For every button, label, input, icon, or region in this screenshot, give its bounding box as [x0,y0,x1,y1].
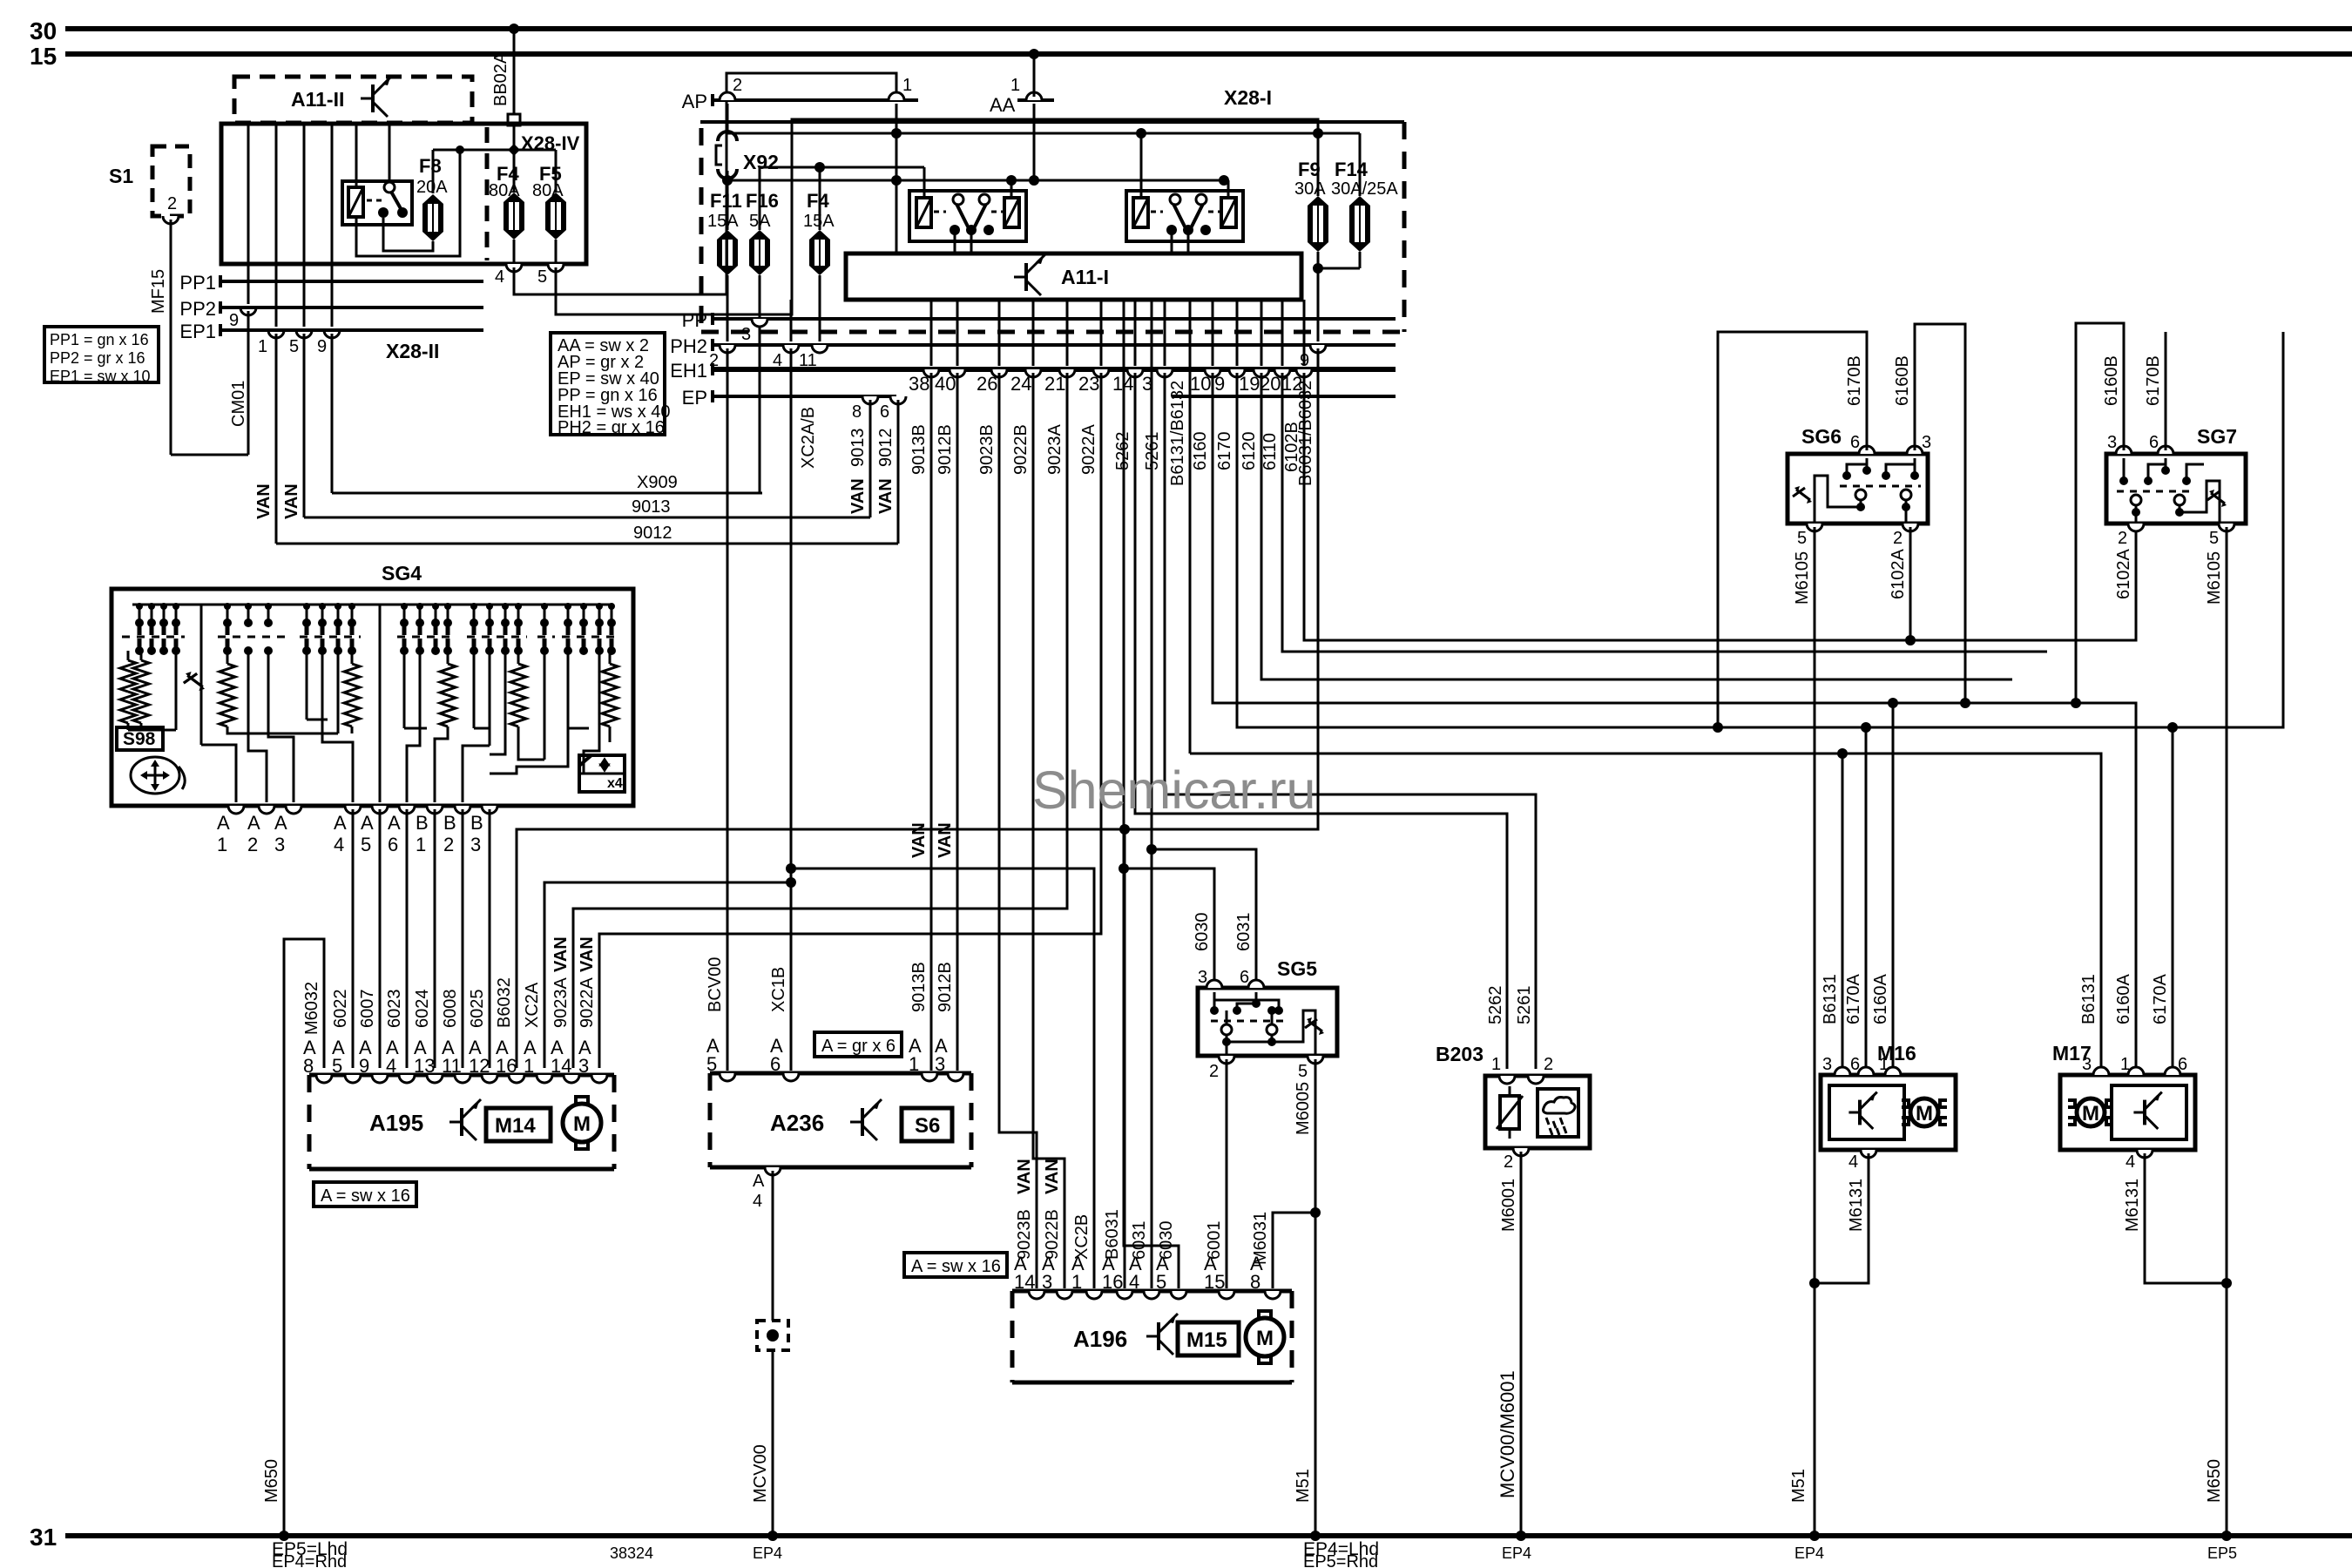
connector A196 pin A14 [1029,1291,1044,1299]
connector M16 pin 1 [1885,1067,1901,1075]
wire VAN 9013 link [869,400,872,517]
svg-text:9: 9 [359,1055,369,1077]
svg-text:2: 2 [167,194,177,213]
connector SG5 pin 2 [1219,1056,1234,1064]
svg-text:5: 5 [537,267,547,287]
connector SG4 pin B1 [427,806,443,814]
wiper motor unit A196 box [1012,1289,1292,1294]
connector EH1 pin 3 [1164,300,1166,366]
connector PH2 pin 11 [812,345,828,353]
svg-text:3: 3 [1042,1271,1052,1293]
SG4 switch group 3 [302,618,311,627]
svg-text:6022: 6022 [331,990,350,1029]
bus EP1 [219,324,222,336]
svg-text:X28-IV: X28-IV [521,132,580,154]
wire 9022B [1033,373,1064,1288]
svg-text:23: 23 [1078,373,1099,395]
wire MCV00 to ground bus [772,1171,774,1536]
svg-text:A: A [361,812,374,834]
svg-text:1: 1 [1010,76,1020,95]
wires SG4 to A195 [352,809,355,1068]
svg-text:11: 11 [442,1055,462,1077]
svg-text:F8: F8 [419,155,442,177]
connector A196 pin A3 [1057,1291,1072,1299]
svg-text:9: 9 [229,311,239,330]
svg-text:M14: M14 [495,1114,536,1138]
rear wiper switch SG6 box [1788,454,1928,524]
connector EH1 pin 21 [1066,300,1069,366]
M17 motor [2068,1100,2075,1125]
svg-text:PH2: PH2 [670,335,707,357]
connector PH2 pin 2 [720,345,735,353]
svg-text:B6032: B6032 [495,977,514,1028]
svg-text:38: 38 [909,373,929,395]
SG7 internals [2123,458,2126,481]
connector A195 pin A9 [372,1075,388,1083]
fuse F8 [422,194,443,204]
svg-text:1: 1 [902,76,912,95]
wire 6030 net [1123,300,1125,868]
wire B6131 to M16 [1842,754,1844,1069]
wire B6031/B6032 from F9 [517,348,1318,1068]
svg-text:2: 2 [709,351,719,370]
svg-text:30A: 30A [1294,179,1326,199]
transistor icon A195 [449,1121,462,1124]
svg-text:26: 26 [977,373,997,395]
svg-text:4: 4 [1848,1152,1858,1172]
SG4 switch group 7 [564,618,572,627]
svg-text:B6031/B6032: B6031/B6032 [1296,381,1315,486]
svg-text:BCV00: BCV00 [706,957,725,1012]
svg-text:2: 2 [733,76,742,95]
wire relay K2 outputs [954,233,956,253]
SG4 arrow icon [186,672,192,678]
svg-text:XC2A: XC2A [523,982,542,1028]
svg-text:3: 3 [2082,1055,2092,1074]
svg-text:9023A: 9023A [551,977,571,1028]
svg-text:3: 3 [1922,433,1931,452]
ECU A11-II dashed box [234,77,472,123]
svg-text:6: 6 [388,834,398,855]
connector A195 pin A1 [537,1075,552,1083]
inline connector X92 [718,132,737,141]
svg-text:B: B [443,812,456,834]
svg-text:1: 1 [1879,1055,1889,1074]
fuse F11 [717,230,738,240]
connector SG4 pin B2 [455,806,470,814]
svg-text:6110: 6110 [1260,433,1280,470]
connector A196 pin A1 [1086,1291,1102,1299]
wire XC2A branch [544,882,791,1068]
B203 thermistor icon [1500,1096,1519,1129]
window lift icon x4 [579,755,625,792]
svg-text:A = gr x 6: A = gr x 6 [821,1037,896,1056]
svg-text:MCV00/M6001: MCV00/M6001 [1497,1370,1518,1498]
connector SG4 pin A5 [372,806,388,814]
steering column switch SG4 box [112,589,633,806]
svg-text:3: 3 [1822,1055,1832,1074]
SG4 switch group 4 [400,618,409,627]
svg-text:16: 16 [1102,1271,1123,1293]
svg-text:F4: F4 [807,190,829,212]
wiper motor M16 box [1821,1075,1956,1150]
svg-text:B203: B203 [1436,1043,1484,1065]
svg-text:4: 4 [386,1055,396,1077]
wire 5261 to B203 [1165,373,1536,1069]
transistor icon A11-II [361,98,373,100]
wire M6105 left / M51 right [1814,527,1816,1536]
wire M6005 / M51 [1315,1059,1317,1536]
svg-text:4: 4 [1129,1271,1139,1293]
svg-text:9012: 9012 [633,524,672,543]
wire M6031 to A196 [1273,1213,1315,1288]
B203 rain icon [1538,1089,1578,1137]
svg-text:15A: 15A [707,212,739,231]
wire XC2B branch [791,868,1094,1288]
svg-text:EP: EP [682,387,707,409]
svg-text:6170A: 6170A [1844,974,1863,1024]
bus EP [711,390,714,402]
svg-text:2: 2 [1893,529,1903,548]
wire AP1 down [896,104,898,253]
svg-text:5: 5 [361,834,371,855]
wire 9012B [956,373,959,1071]
svg-text:M6131: M6131 [2123,1179,2142,1232]
wire relay K1 coil bottom loop [356,150,460,256]
svg-text:2: 2 [1209,1062,1219,1081]
svg-text:MCV00: MCV00 [751,1444,770,1503]
svg-text:EH1: EH1 [670,360,707,382]
svg-text:4: 4 [495,267,504,287]
wire 6170B SG7 loop [2165,332,2167,450]
svg-text:M6105: M6105 [1793,551,1812,605]
connector SG7 pin 5 [2219,524,2234,531]
legend A = sw x 16 (A195) [314,1182,416,1206]
svg-text:8: 8 [1250,1271,1260,1293]
svg-text:M6105: M6105 [2205,551,2224,605]
connector A195 pin A3 [591,1075,607,1083]
svg-text:XC1B: XC1B [769,967,788,1012]
wire 6170 trunk [1237,332,2283,727]
connector SG6 pin 2 [1903,524,1918,531]
SG6 internals [1866,458,1869,470]
SG4 resistor group 4 [447,651,449,664]
svg-text:PP: PP [682,309,707,331]
svg-text:8: 8 [852,402,862,422]
connector SG6 pin 6 [1859,446,1875,454]
transistor icon A196 [1146,1335,1159,1338]
svg-text:F16: F16 [746,190,779,212]
connector X28-IV pin 4 [513,240,516,264]
connector A196 pin A15 [1219,1291,1234,1299]
wire X909 horizontal [332,492,762,495]
label S6 box [902,1108,952,1141]
wire 9012 horizontal [276,543,898,545]
fuse F5 [545,193,566,202]
wire 9023A [573,373,1067,1068]
connector EP pin 8 [862,396,878,404]
connector EH1 pin 40 [956,300,959,366]
svg-text:SG6: SG6 [1801,425,1842,448]
svg-text:EP5: EP5 [2207,1544,2237,1562]
SG4 resistor group 3 [351,651,354,664]
connector SG4 pin A4 [345,806,361,814]
svg-text:5: 5 [706,1053,717,1075]
svg-text:6170B: 6170B [2144,355,2163,406]
legend A = gr x 6 [814,1032,902,1057]
svg-text:PP1 = gn x 16: PP1 = gn x 16 [50,331,149,348]
svg-text:2: 2 [1544,1055,1553,1074]
svg-text:EP5=Rhd: EP5=Rhd [1303,1552,1378,1568]
connector EH1 pin 14 [1134,300,1137,366]
connector SG4 pin A2 [259,806,274,814]
svg-text:6025: 6025 [468,990,487,1029]
wire H1 feed to F9/F14 [727,132,1360,135]
SG4 center divider wire [379,605,382,802]
svg-text:14: 14 [551,1055,571,1077]
connector box X28-I dashed [700,120,1404,124]
svg-text:4: 4 [773,351,782,370]
wire 6160B SG6 loop [1915,324,1965,703]
relay K3 in X28-I [1126,191,1243,241]
connector M17 pin 3 [2093,1067,2109,1075]
svg-text:A196: A196 [1073,1326,1127,1352]
connector A195 pin A13 [427,1075,443,1083]
svg-text:9: 9 [1214,373,1225,395]
svg-text:10: 10 [1190,373,1211,395]
svg-text:3: 3 [578,1055,589,1077]
fuse F4 (15A) [809,230,830,240]
svg-text:9012: 9012 [876,429,896,468]
connector PH2 pin 4 [783,345,799,353]
svg-text:6160B: 6160B [1893,355,1912,406]
svg-text:9023A: 9023A [1045,424,1064,475]
svg-text:VAN: VAN [848,478,868,514]
svg-text:X909: X909 [637,473,678,492]
wire 6160B SG7 loop [2076,323,2124,703]
svg-text:VAN: VAN [876,478,896,514]
wire F9/F14 tops [1313,128,1323,139]
svg-text:A: A [274,812,287,834]
connector X28-IV pin 5 [555,240,558,264]
connector AP pin 1 [889,92,904,100]
svg-text:5: 5 [1298,1062,1308,1081]
connector X28-II pin 1 on EP1 [268,330,284,338]
wire M6131 M16 [1815,1153,1869,1283]
wire BB02A from bus 30 to X28-IV [509,24,519,34]
svg-text:19: 19 [1239,373,1260,395]
svg-text:AP: AP [682,91,707,112]
connector X28-II pin 9 on EP1 [324,330,340,338]
svg-text:A = sw x 16: A = sw x 16 [911,1257,1001,1276]
connector EH1 pin 23 [1100,300,1103,366]
svg-text:M6005: M6005 [1294,1082,1313,1135]
wiper motor M17 box [2060,1075,2195,1150]
connector SG4 pin A6 [399,806,415,814]
connector M16 pin 6 [1858,1067,1874,1075]
svg-text:1: 1 [1491,1055,1501,1074]
svg-text:21: 21 [1044,373,1065,395]
wire F5 output loop to EH feed [556,119,1318,314]
wire 6110 [1282,373,2047,652]
bus PP2 [219,301,222,314]
bus PP1 [219,275,222,287]
svg-text:M51: M51 [1294,1469,1313,1503]
transistor icon A11-I [1014,276,1026,279]
connector AP pin 2 [720,92,735,100]
wire B6031 to A196 [1124,829,1126,1288]
svg-text:3: 3 [741,325,751,344]
wire relay K3 outputs [1171,233,1173,253]
svg-text:B6131: B6131 [1821,974,1840,1024]
SG5 internals [1213,992,1216,1010]
ground splice box on MCV00 [757,1321,788,1350]
svg-text:30A/25A: 30A/25A [1331,179,1398,199]
svg-text:24: 24 [1010,373,1031,395]
svg-text:SG4: SG4 [382,562,422,585]
connector SG6 pin 3 [1907,446,1923,454]
svg-text:6031: 6031 [1234,913,1254,952]
node junction F8/F4 feed [508,144,520,156]
BSI solid box with X28-IV [221,124,586,264]
connector EH1 pin 38 [930,300,933,366]
svg-text:VAN: VAN [909,822,929,858]
wire 6120 [1261,373,2012,679]
wire H2 [760,167,924,230]
svg-text:6120: 6120 [1240,432,1259,471]
svg-text:1: 1 [258,337,267,356]
svg-text:6: 6 [1850,433,1860,452]
svg-text:VAN: VAN [936,822,955,858]
svg-text:6160A: 6160A [2114,974,2133,1024]
bus PP [711,313,714,325]
connector A195 pin A8 [316,1075,332,1083]
svg-text:20: 20 [1260,373,1281,395]
svg-text:6102A: 6102A [1889,549,1908,599]
svg-text:M: M [1916,1102,1933,1125]
connector A195 pin A11 [455,1075,470,1083]
SG4 resistor group 2 [226,651,229,664]
dashed separator X28-IV [485,127,490,260]
svg-text:A: A [217,812,230,834]
svg-text:1: 1 [524,1055,534,1077]
svg-text:Shemicar.ru: Shemicar.ru [1032,760,1315,820]
connector SG5 pin 5 [1308,1056,1323,1064]
svg-text:4: 4 [2126,1152,2135,1172]
svg-text:6024: 6024 [413,990,432,1029]
wire relay K1 contact to F8 bottom [383,218,433,251]
relay K1 in BSI [342,181,412,225]
svg-text:2: 2 [247,834,258,855]
svg-text:6: 6 [2178,1055,2187,1074]
svg-text:M15: M15 [1186,1328,1227,1352]
wire 6170B SG6 loop [1718,332,1867,727]
svg-text:9012B: 9012B [936,424,955,475]
svg-text:EP4: EP4 [1794,1544,1824,1562]
wiper stalk switch SG5 box [1198,988,1337,1056]
svg-text:4: 4 [334,834,344,855]
M16 motor [1902,1100,1909,1125]
wire 6102B trunk [1304,373,2136,640]
wiper motor unit A195 box [309,1073,614,1078]
svg-text:x4: x4 [607,776,623,791]
svg-text:5: 5 [289,337,299,356]
svg-text:30: 30 [30,17,57,44]
svg-text:CM01: CM01 [229,381,248,427]
svg-text:6: 6 [2149,433,2159,452]
svg-text:6170: 6170 [1215,432,1234,471]
wire F9/F14 bottoms join [1317,252,1320,341]
svg-text:VAN: VAN [1043,1159,1062,1194]
svg-text:6023: 6023 [385,990,404,1029]
svg-text:PP1: PP1 [179,272,216,294]
wires A11-II to X28-II buses [247,123,250,304]
svg-text:5: 5 [1156,1271,1166,1293]
svg-text:6160: 6160 [1191,432,1210,471]
svg-text:M: M [2082,1102,2099,1125]
rear wiper switch SG7 box [2106,454,2246,524]
wire H3 relay feed from X92 [727,179,1224,182]
connector B203 pin 2 bottom [1513,1148,1529,1156]
svg-text:PP2: PP2 [179,298,216,320]
svg-text:14: 14 [1014,1271,1035,1293]
motor icon A195 [576,1097,588,1105]
wire 6160 trunk [1213,373,2136,1069]
wire 5262 to B203 [1135,373,1507,1069]
svg-text:VAN: VAN [1015,1159,1034,1194]
connector SG4 pin A1 [228,806,244,814]
wire 6102A SG6 [1909,527,1912,640]
svg-text:A: A [334,812,347,834]
svg-text:VAN: VAN [578,936,597,972]
svg-text:2: 2 [2118,529,2127,548]
svg-text:X28-I: X28-I [1224,86,1272,109]
svg-text:20A: 20A [416,178,448,197]
bus AP [711,94,714,106]
svg-text:2: 2 [1504,1152,1513,1172]
wire F4b to PH2 pin 11 [819,275,821,341]
wire F11 to PH2 pin 2 [727,275,729,341]
svg-text:5261: 5261 [1515,986,1534,1025]
svg-text:9022A: 9022A [578,977,597,1028]
SG4 switch group 2 [223,618,232,627]
wire AP2 to X92 [727,104,729,132]
svg-text:9022B: 9022B [1011,424,1031,475]
connector EH1 pin 26 [998,300,1001,366]
svg-text:6: 6 [1240,968,1249,987]
SG4 switch group 6 [540,618,549,627]
svg-text:M51: M51 [1789,1469,1808,1503]
rain sensor B203 box [1485,1076,1590,1148]
transistor icon A236 [850,1121,862,1124]
connector A236 pin A3 [948,1073,963,1081]
svg-text:B: B [416,812,429,834]
connector M17 pin 1 [2128,1067,2144,1075]
label M14 box [486,1108,551,1141]
connector A195 pin A14 [564,1075,579,1083]
svg-text:15: 15 [30,43,57,70]
wire 6160A to M16 [1892,703,1895,1069]
connector A196 pin A8 [1265,1291,1281,1299]
svg-text:6102A: 6102A [2114,549,2133,599]
wire 9013 horizontal [304,517,870,519]
wire relay K1 coil top [355,124,358,187]
wire M6001 [1520,1152,1523,1536]
connector A195 pin A4 [399,1075,415,1083]
connector PP pin 3 [752,319,767,327]
svg-text:40: 40 [935,373,956,395]
wire AA to relay feed [1033,54,1036,97]
